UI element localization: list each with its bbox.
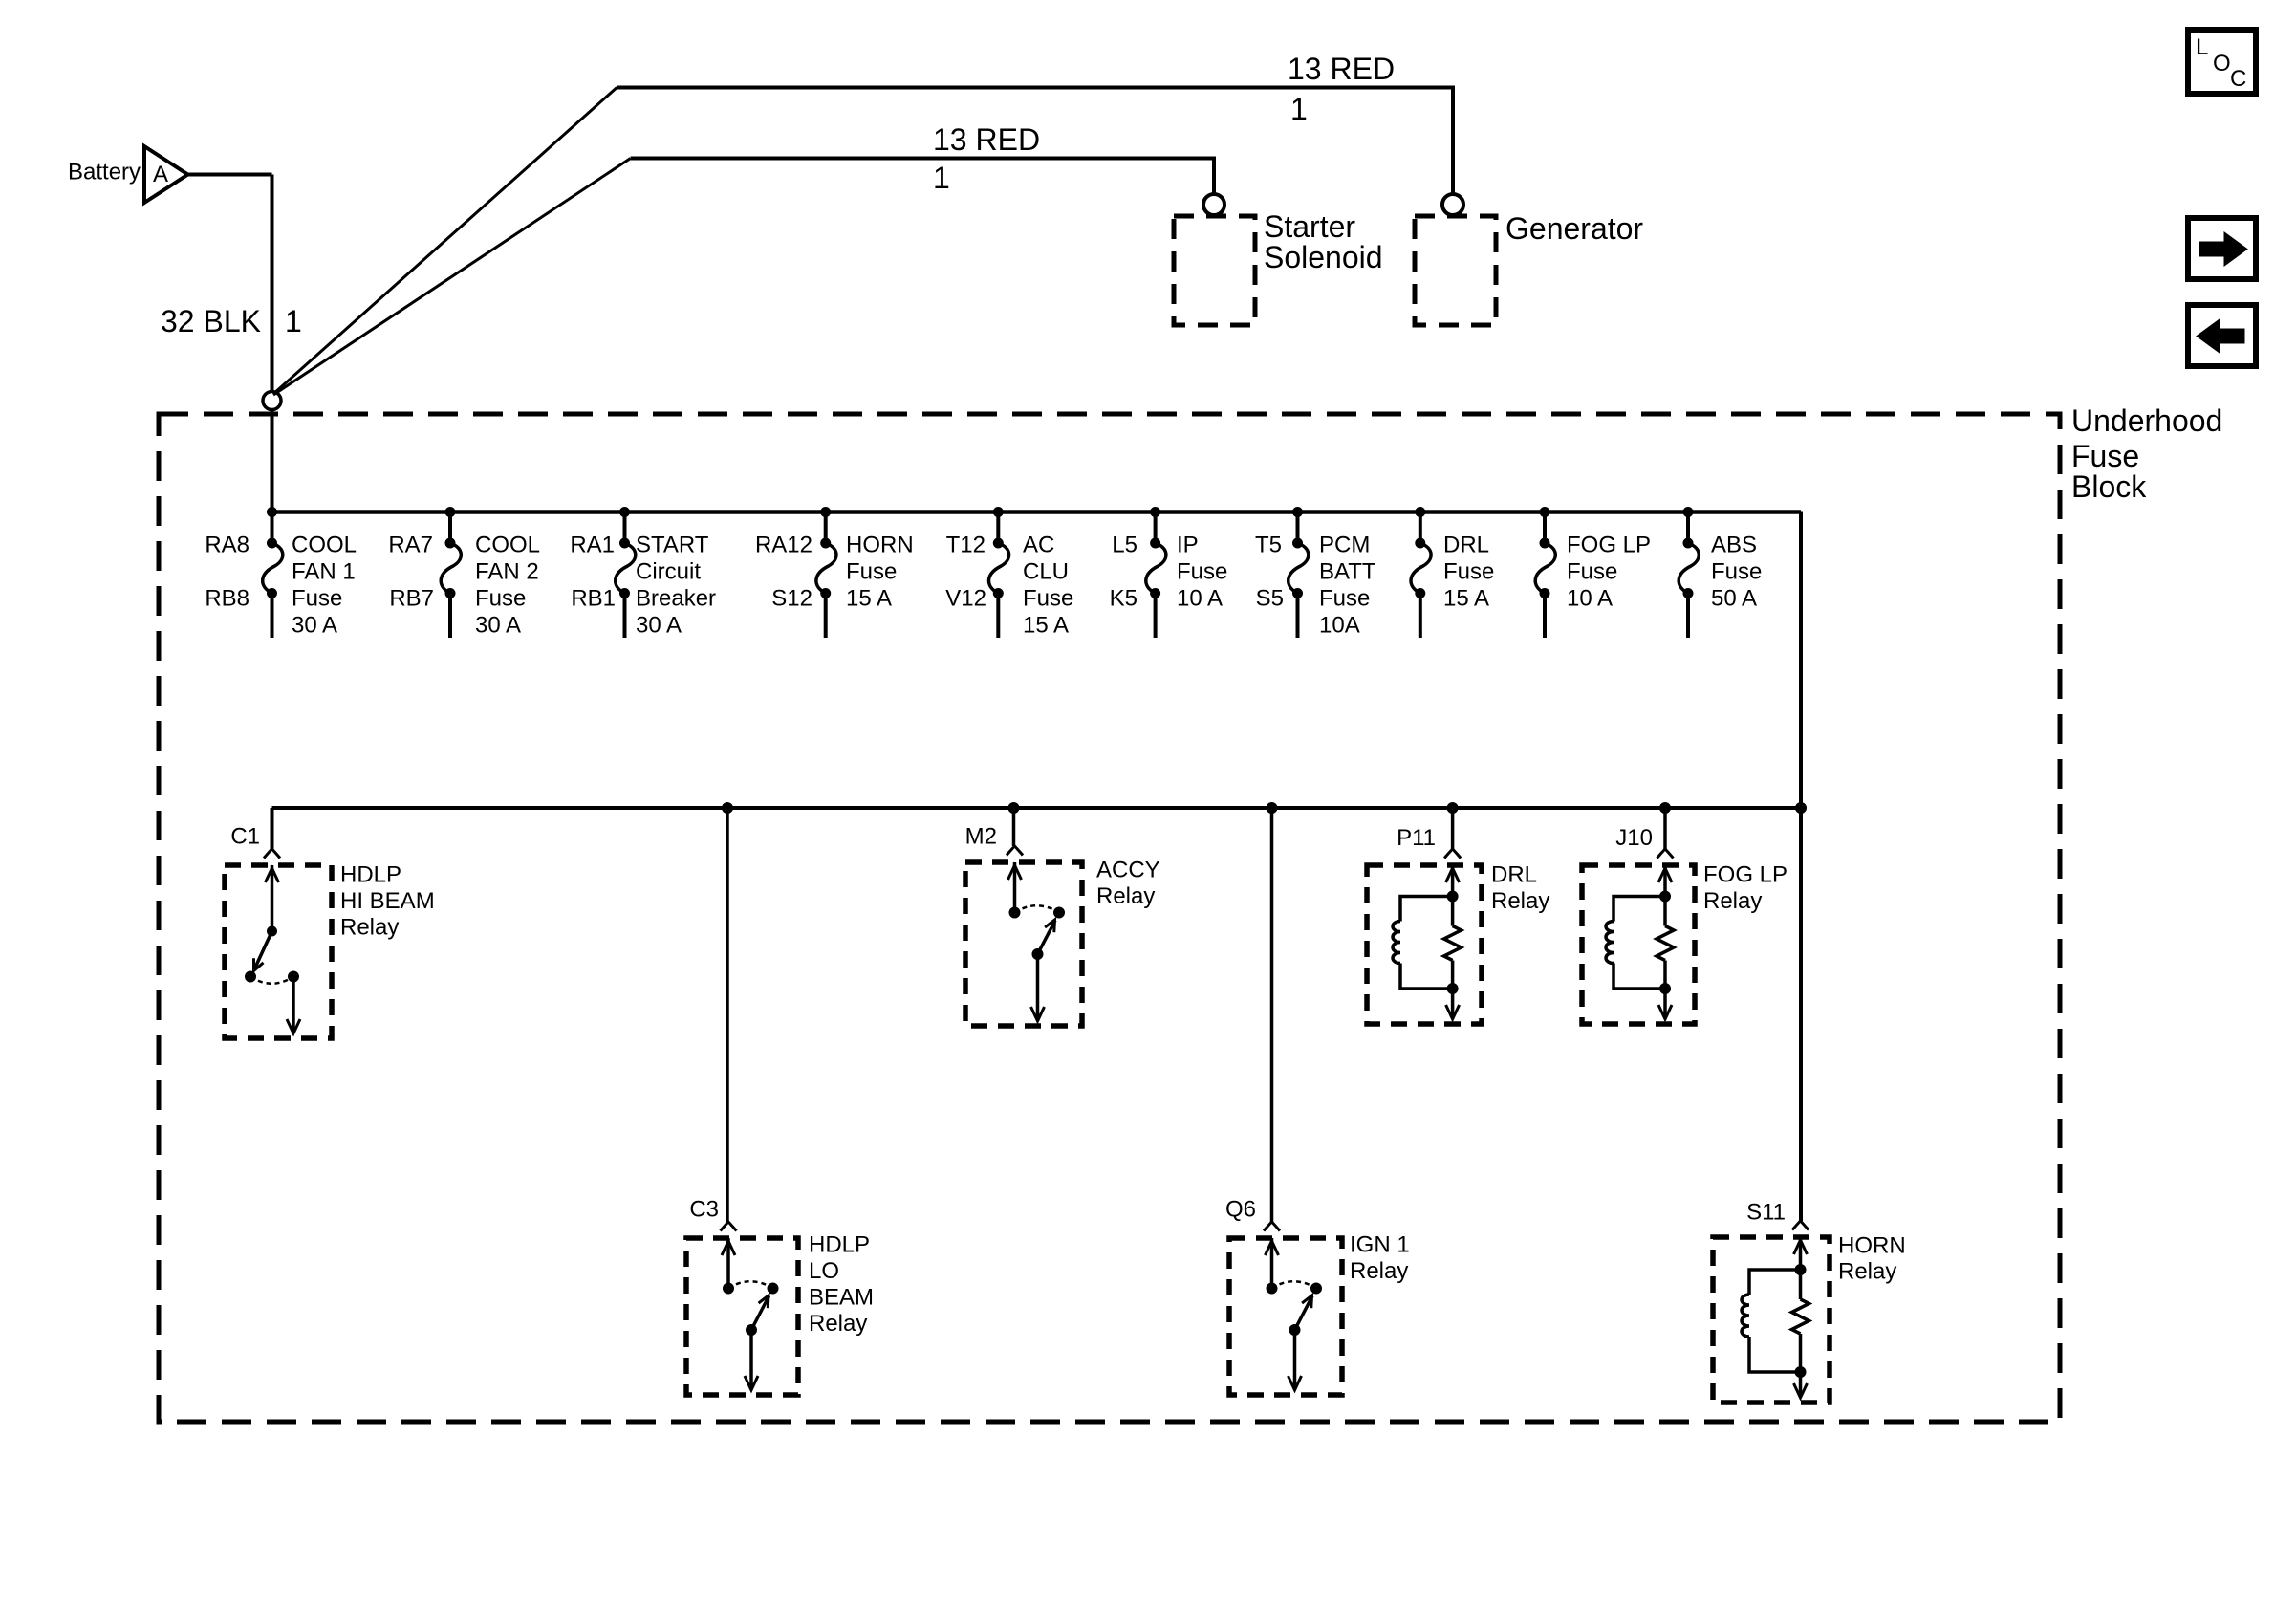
svg-text:FOG LP: FOG LP	[1703, 862, 1787, 888]
svg-text:Fuse: Fuse	[292, 586, 342, 612]
svg-text:BATT: BATT	[1319, 559, 1376, 585]
relay M2 ACCY	[965, 824, 1160, 1027]
svg-text:Circuit: Circuit	[636, 559, 701, 585]
switch blade	[751, 1296, 769, 1331]
svg-text:FOG LP: FOG LP	[1567, 533, 1651, 558]
svg-text:Fuse: Fuse	[1443, 559, 1494, 585]
relay S11 HORN	[1713, 1200, 1906, 1403]
common contact	[246, 971, 256, 982]
pivot contact	[1267, 1283, 1277, 1294]
svg-text:Fuse: Fuse	[1319, 586, 1370, 612]
connector chevron S11	[1792, 1221, 1809, 1230]
svg-text:13 RED: 13 RED	[1288, 52, 1395, 86]
output contact	[289, 971, 299, 982]
svg-text:Solenoid: Solenoid	[1264, 240, 1383, 274]
svg-text:S12: S12	[771, 586, 812, 612]
wire diagonal to starter feed	[273, 159, 631, 396]
svg-text:V12: V12	[945, 586, 986, 612]
svg-text:C: C	[2230, 66, 2246, 92]
svg-text:K5: K5	[1110, 586, 1137, 612]
svg-text:HI BEAM: HI BEAM	[340, 888, 435, 914]
svg-text:15 A: 15 A	[1443, 586, 1489, 612]
svg-text:Relay: Relay	[1491, 888, 1549, 914]
moving contact	[1311, 1283, 1322, 1294]
relay box C1	[225, 865, 332, 1038]
fuse DRL Fuse 15 A	[1411, 508, 1494, 639]
svg-text:IP: IP	[1177, 533, 1199, 558]
wire to J10 relay	[1663, 808, 1667, 849]
actuation arc	[1272, 1281, 1317, 1288]
connector chevron C3	[721, 1222, 737, 1231]
svg-text:RB7: RB7	[389, 586, 434, 612]
svg-text:Fuse: Fuse	[1177, 559, 1227, 585]
svg-text:Fuse: Fuse	[2071, 439, 2139, 473]
svg-text:Fuse: Fuse	[846, 559, 897, 585]
svg-text:L5: L5	[1112, 533, 1137, 558]
back arrow icon	[2188, 305, 2256, 366]
pin lead with arrow	[1799, 1237, 1803, 1270]
generator	[1415, 211, 1643, 325]
fuse FOG LP Fuse 10 A	[1535, 508, 1651, 639]
ring terminal at starter solenoid	[1203, 194, 1224, 215]
svg-text:HORN: HORN	[1838, 1233, 1906, 1259]
svg-text:PCM: PCM	[1319, 533, 1370, 558]
pivot contact	[1009, 907, 1020, 918]
svg-text:1: 1	[933, 161, 950, 195]
relay box Q6	[1229, 1238, 1342, 1395]
output lead with arrow	[749, 1330, 753, 1387]
svg-text:HORN: HORN	[846, 533, 914, 558]
junction J10 branch	[1660, 803, 1671, 814]
svg-text:Battery: Battery	[68, 160, 141, 185]
svg-text:32 BLK: 32 BLK	[161, 304, 261, 338]
relay box J10	[1582, 865, 1695, 1024]
wire battery to corner	[185, 173, 272, 177]
svg-text:RA8: RA8	[205, 533, 249, 558]
resistor	[1799, 1270, 1803, 1299]
wire 32 BLK vertical	[271, 175, 274, 393]
pivot contact	[724, 1283, 734, 1294]
junction Q6 branch	[1267, 803, 1277, 814]
top feed bus B+	[271, 510, 1802, 514]
pivot contact	[268, 926, 277, 936]
bottom node	[1660, 984, 1671, 994]
relay box P11	[1367, 865, 1482, 1024]
svg-text:Fuse: Fuse	[1023, 586, 1073, 612]
svg-text:S5: S5	[1256, 586, 1284, 612]
svg-text:C1: C1	[230, 824, 260, 850]
svg-text:J10: J10	[1615, 825, 1653, 851]
connector chevron M2	[1007, 846, 1023, 856]
underhood fuse block enclosure	[159, 403, 2222, 1422]
output lead with arrow	[1293, 1330, 1297, 1387]
svg-text:IGN 1: IGN 1	[1350, 1232, 1410, 1258]
svg-text:15 A: 15 A	[846, 586, 892, 612]
wire splice into fuse block	[271, 409, 274, 512]
output lead with arrow	[1663, 989, 1667, 1016]
svg-text:FAN 1: FAN 1	[292, 559, 356, 585]
junction M2 branch	[1008, 803, 1019, 814]
svg-text:COOL: COOL	[475, 533, 540, 558]
resistor	[1451, 897, 1455, 926]
moving contact	[768, 1283, 778, 1294]
svg-text:RA12: RA12	[755, 533, 812, 558]
svg-text:Fuse: Fuse	[1711, 559, 1762, 585]
svg-text:Relay: Relay	[340, 915, 399, 941]
wire bus to C1 relay	[271, 808, 274, 849]
svg-text:ACCY: ACCY	[1096, 858, 1160, 883]
bottom node	[1447, 984, 1458, 994]
wire diagonal to generator feed	[273, 88, 617, 395]
svg-text:Relay: Relay	[1703, 888, 1762, 914]
svg-text:Q6: Q6	[1225, 1197, 1256, 1223]
battery B+ terminal A	[68, 146, 188, 203]
svg-text:10 A: 10 A	[1177, 586, 1223, 612]
actuation arc	[728, 1281, 773, 1288]
svg-text:C3: C3	[689, 1197, 719, 1223]
svg-text:Relay: Relay	[1096, 883, 1155, 909]
pin lead with arrow	[1451, 865, 1455, 897]
svg-text:COOL: COOL	[292, 533, 357, 558]
svg-text:P11: P11	[1397, 825, 1436, 851]
fuse IP Fuse 10 A	[1110, 508, 1228, 639]
svg-text:START: START	[636, 533, 709, 558]
label 13 RED 1 (starter circuit)	[933, 122, 1040, 195]
label 32 BLK 1	[161, 304, 302, 338]
LOC legend icon	[2188, 30, 2256, 94]
moving contact	[1054, 907, 1065, 918]
switch blade	[1295, 1296, 1313, 1331]
relay J10 FOG LP	[1582, 825, 1787, 1024]
svg-text:FAN 2: FAN 2	[475, 559, 539, 585]
resistor	[1663, 897, 1667, 926]
top node	[1795, 1265, 1806, 1275]
relay feed bus	[272, 806, 1802, 810]
right feed wire to relay bus	[1799, 512, 1803, 1222]
coil	[1400, 897, 1453, 922]
svg-text:10 A: 10 A	[1567, 586, 1613, 612]
relay C1 HDLP HI BEAM	[225, 824, 435, 1039]
connector chevron J10	[1657, 849, 1674, 859]
coil	[1749, 1270, 1801, 1295]
svg-text:Fuse: Fuse	[475, 586, 526, 612]
wire to P11 relay	[1451, 808, 1455, 849]
pin lead with arrow	[1013, 862, 1017, 913]
svg-text:O: O	[2213, 51, 2231, 76]
top node	[1660, 891, 1671, 902]
svg-text:Relay: Relay	[1838, 1259, 1896, 1285]
svg-text:13 RED: 13 RED	[933, 122, 1040, 157]
svg-text:RA7: RA7	[388, 533, 433, 558]
junction P11 branch	[1447, 803, 1458, 814]
relay box C3	[686, 1238, 798, 1395]
wire to M2 relay	[1012, 808, 1016, 846]
svg-text:BEAM: BEAM	[809, 1285, 874, 1311]
wire 13 RED starter feed	[631, 159, 1214, 194]
svg-text:RB1: RB1	[571, 586, 616, 612]
svg-text:L: L	[2196, 34, 2208, 60]
output lead with arrow	[1451, 989, 1455, 1016]
svg-text:1: 1	[285, 304, 302, 338]
svg-text:Underhood: Underhood	[2071, 403, 2222, 438]
forward arrow icon	[2188, 218, 2256, 279]
coil	[1614, 897, 1665, 922]
svg-text:1: 1	[1290, 92, 1308, 126]
svg-text:Generator: Generator	[1505, 211, 1643, 246]
svg-text:Fuse: Fuse	[1567, 559, 1617, 585]
pin lead with arrow	[271, 865, 274, 931]
relay C3 HDLP LO BEAM	[686, 1197, 874, 1396]
starter solenoid	[1174, 209, 1383, 325]
svg-text:Relay: Relay	[1350, 1258, 1408, 1284]
output lead with arrow	[292, 977, 295, 1032]
svg-text:AC: AC	[1023, 533, 1054, 558]
junction right feed	[1796, 803, 1807, 814]
actuation arc	[250, 977, 293, 984]
output lead with arrow	[1036, 954, 1040, 1018]
wire to C3 relay	[726, 808, 729, 1224]
junction C3 branch	[723, 803, 733, 814]
svg-text:Breaker: Breaker	[636, 586, 716, 612]
svg-text:30 A: 30 A	[292, 613, 337, 639]
output contact	[1289, 1325, 1300, 1336]
fuse ABS Fuse 50 A	[1679, 508, 1762, 639]
svg-text:ABS: ABS	[1711, 533, 1757, 558]
fuse PCM BATT Fuse 10A	[1255, 508, 1376, 639]
switch blade	[1038, 921, 1056, 955]
fuse COOL FAN 1 Fuse 30 A	[205, 508, 357, 639]
svg-text:DRL: DRL	[1491, 862, 1537, 888]
svg-text:HDLP: HDLP	[340, 862, 401, 888]
svg-text:LO: LO	[809, 1258, 839, 1284]
svg-text:HDLP: HDLP	[809, 1232, 870, 1258]
relay Q6 IGN 1	[1225, 1197, 1410, 1396]
pin lead with arrow	[1270, 1238, 1274, 1289]
svg-text:15 A: 15 A	[1023, 613, 1069, 639]
output contact	[747, 1325, 757, 1336]
actuation arc	[1015, 905, 1060, 912]
ring terminal at generator	[1442, 194, 1463, 215]
svg-text:CLU: CLU	[1023, 559, 1069, 585]
wire to Q6 relay	[1270, 808, 1274, 1224]
splice node S100	[263, 392, 281, 410]
relay P11 DRL	[1367, 825, 1549, 1024]
svg-text:RA1: RA1	[570, 533, 615, 558]
svg-text:RB8: RB8	[205, 586, 249, 612]
output lead with arrow	[1799, 1372, 1803, 1395]
svg-text:T5: T5	[1255, 533, 1282, 558]
fuse COOL FAN 2 Fuse 30 A	[388, 508, 540, 639]
connector chevron P11	[1444, 849, 1461, 859]
svg-text:30 A: 30 A	[636, 613, 682, 639]
connector chevron Q6	[1264, 1222, 1280, 1231]
svg-text:Starter: Starter	[1264, 209, 1355, 244]
label 13 RED 1 (generator circuit)	[1288, 52, 1395, 126]
fuse HORN Fuse 15 A	[755, 508, 914, 639]
svg-text:T12: T12	[946, 533, 986, 558]
pin lead with arrow	[726, 1238, 730, 1289]
fuse START Circuit Breaker 30 A	[570, 508, 716, 639]
switch blade	[255, 931, 272, 968]
svg-text:50 A: 50 A	[1711, 586, 1757, 612]
svg-text:30 A: 30 A	[475, 613, 521, 639]
pin lead with arrow	[1663, 865, 1667, 897]
bottom node	[1795, 1367, 1806, 1378]
connector chevron C1	[264, 849, 280, 859]
svg-text:Block: Block	[2071, 469, 2147, 504]
svg-text:M2: M2	[965, 824, 997, 850]
svg-text:A: A	[153, 162, 168, 187]
svg-text:Relay: Relay	[809, 1311, 867, 1337]
svg-text:10A: 10A	[1319, 613, 1360, 639]
wire 13 RED generator feed	[617, 88, 1453, 194]
svg-text:DRL: DRL	[1443, 533, 1489, 558]
svg-text:S11: S11	[1746, 1200, 1786, 1226]
output contact	[1032, 949, 1043, 960]
relay box S11	[1713, 1237, 1830, 1403]
fuse AC CLU Fuse 15 A	[945, 508, 1073, 639]
relay box M2	[965, 862, 1082, 1026]
top node	[1447, 891, 1458, 902]
